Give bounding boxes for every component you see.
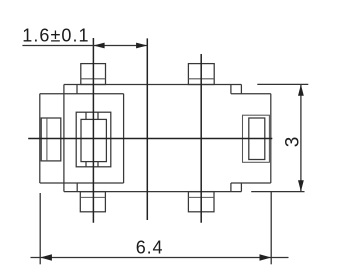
svg-text:1.6±0.1: 1.6±0.1 bbox=[22, 25, 89, 45]
svg-text:3: 3 bbox=[283, 137, 304, 148]
svg-text:6.4: 6.4 bbox=[136, 237, 164, 257]
